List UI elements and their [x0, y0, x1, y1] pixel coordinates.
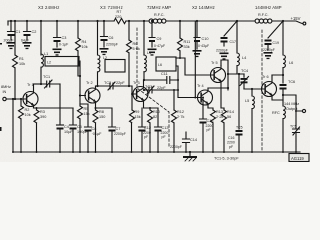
wire rail left end stub	[7, 21, 9, 25]
wire bottom ground rail	[13, 151, 300, 153]
wire Tr1 emitter node	[34, 107, 74, 109]
svg-text:TC5: TC5	[236, 126, 243, 130]
svg-text:AG119: AG119	[291, 156, 304, 161]
terminal 144MHz output	[302, 109, 305, 112]
svg-text:R2: R2	[25, 108, 30, 112]
svg-text:150: 150	[99, 115, 105, 119]
wire doubler collectors join	[208, 60, 228, 90]
wire Tr3 emitter node	[144, 107, 159, 109]
resistor R9 15k	[131, 94, 134, 152]
capacitor C16 2200pF / TC5	[238, 74, 240, 129]
capacitor C3 0.1uF	[54, 21, 61, 38]
transistor Tr6	[262, 75, 269, 79]
resistor R5 15k	[79, 96, 81, 153]
capacitor C2 64uF	[24, 21, 31, 32]
svg-text:L5: L5	[245, 99, 249, 103]
RFC choke in rail (left)	[149, 19, 153, 23]
svg-text:5·6k: 5·6k	[133, 47, 140, 51]
dashed screen partition stage4/5	[261, 30, 263, 150]
transistor Tr2	[86, 81, 93, 85]
resistor R7 220 in rail	[114, 18, 126, 23]
stage title X2 144MHz	[192, 5, 215, 10]
svg-text:C3: C3	[62, 36, 67, 40]
ground under C3	[53, 49, 62, 56]
resistor R2 10k	[20, 99, 22, 152]
svg-text:C2: C2	[32, 30, 37, 34]
svg-text:15k: 15k	[84, 112, 90, 116]
RFC choke in rail (right)	[255, 19, 259, 23]
svg-text:C13: C13	[162, 126, 169, 130]
svg-text:2200pF: 2200pF	[114, 132, 126, 136]
junction base-R2	[20, 98, 22, 100]
capacitor C15 2200pF	[200, 98, 207, 120]
capacitor C1 200uF	[8, 21, 15, 32]
inductor L3	[143, 21, 145, 55]
svg-text:C5: C5	[77, 125, 82, 129]
svg-text:22pF: 22pF	[116, 81, 125, 85]
junction rail-C1	[10, 20, 12, 22]
junction rail-C3	[56, 20, 58, 22]
wire input to base	[6, 98, 26, 100]
wire Tr2 collector node	[96, 85, 98, 87]
capacitor TC6 output coupling	[272, 75, 283, 83]
svg-text:C9: C9	[157, 37, 162, 41]
capacitor C5 100uF	[70, 108, 77, 125]
svg-text:72MHz AMP: 72MHz AMP	[147, 5, 171, 10]
svg-text:C1: C1	[16, 30, 21, 34]
svg-text:8MHz: 8MHz	[1, 85, 11, 89]
svg-text:pF: pF	[207, 128, 211, 132]
svg-text:L6: L6	[289, 61, 293, 65]
svg-text:·01µF: ·01µF	[92, 132, 103, 136]
transistor Tr1	[27, 83, 34, 87]
svg-text:Tr 2: Tr 2	[86, 81, 93, 85]
inductor L4 feed	[228, 21, 239, 74]
svg-text:2200pF: 2200pF	[106, 43, 118, 47]
resistor R6 5.6k	[128, 21, 130, 86]
svg-text:Tr 3: Tr 3	[133, 81, 140, 85]
svg-text:10µF: 10µF	[64, 130, 73, 134]
svg-text:2·7k: 2·7k	[177, 115, 184, 119]
svg-text:Tr 6: Tr 6	[262, 75, 269, 79]
trimmer TC1	[43, 75, 50, 79]
junction rail-R1	[14, 20, 16, 22]
svg-text:2200pF: 2200pF	[263, 48, 275, 52]
transformer box stage2	[105, 60, 125, 73]
capacitor C7 2200pF	[96, 108, 116, 127]
svg-text:220: 220	[115, 15, 121, 19]
wire input ground leg	[12, 99, 14, 152]
inductor L1	[40, 21, 42, 55]
ground under C17	[220, 53, 229, 60]
svg-text:R7: R7	[117, 10, 122, 14]
svg-text:TC6: TC6	[288, 80, 295, 84]
svg-text:56: 56	[227, 115, 231, 119]
svg-text:2200pF: 2200pF	[216, 49, 228, 53]
svg-text:10k: 10k	[82, 45, 88, 49]
svg-text:R.F.C.: R.F.C.	[154, 13, 165, 17]
resistor R8 150	[95, 108, 97, 152]
text 8MHz IN	[1, 85, 11, 94]
capacitor C8 .01uF	[80, 104, 92, 127]
svg-text:Tr 1: Tr 1	[27, 83, 34, 87]
terminal +15V	[303, 22, 306, 25]
svg-text:TC1: TC1	[43, 75, 50, 79]
svg-text:Tr 5: Tr 5	[211, 61, 218, 65]
svg-text:R14: R14	[227, 110, 234, 114]
scan mark left edge	[0, 43, 2, 45]
junction collector node	[40, 83, 42, 85]
resistor R12 2.7k	[173, 90, 175, 152]
svg-text:TC1-5, 3-30pF: TC1-5, 3-30pF	[214, 157, 239, 161]
capacitor C9 .47uF	[149, 21, 155, 38]
wire Tr1 collector to L1	[34, 83, 42, 85]
stage title X3 72MHz	[100, 5, 123, 10]
trimmer TC4	[241, 69, 248, 73]
capacitor C6 2200pF	[101, 21, 108, 37]
wire TC1 ground leg	[59, 84, 61, 124]
svg-text:X2 144MHz: X2 144MHz	[192, 5, 215, 10]
svg-text:C19: C19	[273, 41, 279, 45]
capacitor C19 2200pF with ground (supply entry)	[268, 21, 283, 38]
svg-text:C14: C14	[190, 138, 197, 142]
stage title X3 24MHz	[38, 5, 60, 10]
svg-text:IN: IN	[3, 90, 7, 94]
svg-text:C10: C10	[202, 37, 209, 41]
svg-text:R4: R4	[82, 40, 87, 44]
transistor Tr3	[133, 81, 140, 85]
wire +15V entry	[283, 21, 303, 24]
stage title 72MHz AMP	[147, 5, 171, 10]
svg-text:R3: R3	[40, 110, 45, 114]
svg-text:pF: pF	[162, 135, 166, 139]
svg-text:R1: R1	[19, 57, 24, 61]
svg-text:2200: 2200	[227, 141, 235, 145]
capacitor C12 2200pF	[139, 108, 146, 127]
svg-text:15k: 15k	[135, 115, 141, 119]
wire bias feed to Tr4 base	[194, 21, 196, 98]
ground under C10	[193, 50, 202, 57]
svg-text:L1: L1	[44, 52, 48, 56]
resistor R3 390	[36, 108, 38, 152]
resistor R1 10k	[14, 21, 16, 99]
trimmer TC2 22pF	[104, 81, 125, 85]
svg-text:144 MHz: 144 MHz	[284, 102, 299, 106]
wire to Tr6 base	[244, 88, 264, 90]
wire to Tr3 base	[132, 86, 136, 94]
ground under C19	[264, 52, 273, 59]
svg-text:R9: R9	[135, 110, 140, 114]
svg-text:C17: C17	[230, 40, 236, 44]
svg-text:10k: 10k	[25, 113, 31, 117]
wire top supply rail	[8, 20, 283, 22]
resistor R4 10k	[78, 21, 80, 76]
svg-text:R.F.C.: R.F.C.	[258, 13, 269, 17]
svg-text:R13: R13	[216, 110, 223, 114]
junction rail-C2	[26, 20, 28, 22]
svg-text:RFC: RFC	[272, 111, 280, 115]
svg-text:pF: pF	[144, 135, 148, 139]
resistor R11 33k	[179, 21, 181, 58]
chassis ground	[189, 152, 191, 156]
svg-text:TC4: TC4	[241, 69, 248, 73]
ground under C2	[23, 42, 32, 49]
wire doubler output node	[228, 73, 244, 75]
ground under C9	[148, 49, 157, 56]
wire coupling stage1 to Tr2 base	[80, 61, 85, 96]
inductor L5 to ground	[252, 89, 254, 152]
svg-text:C15: C15	[207, 119, 214, 123]
svg-text:L2: L2	[47, 61, 51, 65]
RFC output choke	[272, 111, 280, 115]
transformer box stage1	[45, 57, 79, 67]
dashed screen partition stage3/4	[137, 28, 169, 148]
junction input leg	[12, 98, 14, 100]
svg-text:10k: 10k	[19, 62, 25, 66]
resistor R14	[223, 108, 225, 152]
label box AG119	[289, 154, 309, 162]
junction dots along bottom rail	[12, 151, 14, 153]
svg-text:R10: R10	[153, 110, 160, 114]
trimmer TC5b output	[293, 111, 300, 152]
svg-text:33k: 33k	[184, 45, 190, 49]
capacitor C4 10uF	[57, 124, 64, 126]
transistor Tr4	[197, 84, 204, 88]
capacitor C13 2200pF	[155, 108, 162, 127]
svg-text:+15V: +15V	[291, 16, 301, 21]
svg-text:0·1µF: 0·1µF	[59, 43, 68, 47]
svg-text:0·43µF: 0·43µF	[198, 44, 209, 48]
svg-text:TC5: TC5	[290, 125, 297, 129]
capacitor C10 .47uF	[194, 21, 200, 38]
svg-text:C4: C4	[64, 125, 69, 129]
svg-text:2200pF: 2200pF	[170, 145, 182, 149]
svg-text:R8: R8	[99, 110, 104, 114]
svg-text:200µF: 200µF	[4, 39, 14, 43]
ground under C6	[100, 48, 109, 55]
svg-text:C11: C11	[161, 72, 168, 76]
capacitor C14 2200pF	[183, 132, 190, 152]
svg-text:C7: C7	[116, 127, 121, 131]
svg-text:L4: L4	[242, 56, 246, 60]
ground under C1	[7, 42, 16, 49]
svg-text:390: 390	[40, 115, 46, 119]
svg-text:Tr 4: Tr 4	[197, 84, 204, 88]
resistor R13	[208, 108, 213, 152]
transistor Tr5	[211, 61, 218, 65]
svg-text:R12: R12	[177, 110, 184, 114]
trimmer TC3 22pF	[145, 85, 166, 90]
svg-text:144MHz AMP: 144MHz AMP	[255, 5, 282, 10]
svg-text:22pF: 22pF	[157, 86, 166, 90]
inductor L6 collector feed	[283, 21, 285, 75]
junction rail-L1	[40, 20, 42, 22]
svg-text:X3 24MHz: X3 24MHz	[38, 5, 60, 10]
terminal input	[3, 97, 6, 100]
wire transformer taps to Tr4/Tr5 bases	[176, 58, 213, 98]
stage title 144MHz AMP	[255, 5, 282, 10]
svg-text:L6: L6	[158, 63, 162, 67]
svg-text:R11: R11	[184, 40, 191, 44]
svg-text:C6: C6	[109, 36, 114, 40]
svg-text:82: 82	[153, 115, 157, 119]
text trimmer note	[214, 157, 239, 161]
svg-text:pF: pF	[229, 145, 233, 149]
wire output tap	[283, 95, 302, 111]
capacitor C11	[161, 72, 168, 76]
resistor R10 82	[149, 108, 151, 152]
svg-text:0·47µF: 0·47µF	[154, 44, 165, 48]
transformer box stage3	[156, 57, 176, 71]
junction input node R1	[14, 98, 16, 100]
junction dots bottom rail	[189, 151, 191, 153]
inductor L2	[98, 21, 100, 86]
capacitor C17 2200pF with ground	[224, 21, 237, 36]
svg-text:C16: C16	[228, 136, 234, 140]
svg-text:64µF: 64µF	[21, 39, 29, 43]
